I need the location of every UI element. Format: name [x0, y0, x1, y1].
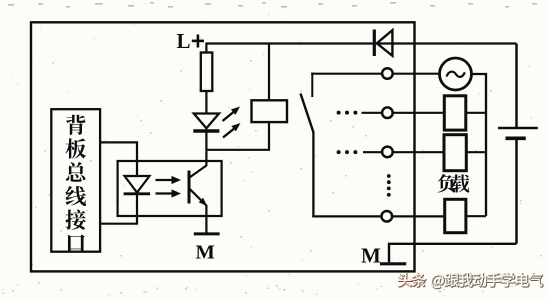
terminal contact 4	[382, 211, 393, 222]
load resistor RL2	[444, 135, 486, 171]
wire: interface to opto LED anode	[101, 142, 137, 176]
indicator LED D2	[193, 114, 219, 151]
ellipsis dots row3	[337, 150, 358, 154]
vertical ellipsis dots	[387, 174, 391, 197]
ground bar M (external)	[380, 262, 406, 265]
terminal contact 1	[382, 68, 393, 79]
wire: opto LED cathode back to interface	[101, 194, 137, 224]
wire: AC source to load common	[472, 74, 487, 216]
wire: emitter to M ground	[205, 205, 207, 234]
wire row4	[312, 215, 444, 217]
phototransistor Q1	[189, 166, 207, 207]
ground bar M (emitter)	[194, 232, 220, 235]
light arrows to phototransistor	[156, 176, 182, 198]
terminal contact 3	[382, 147, 393, 158]
wire: battery negative to M ground	[389, 244, 517, 262]
opto LED D1	[124, 176, 151, 194]
label 负载 (load)	[438, 174, 470, 192]
wire row3	[363, 151, 444, 153]
load resistor RL3	[445, 199, 486, 232]
svg-text:M: M	[196, 242, 215, 264]
wire: node to relay coil	[206, 123, 269, 150]
module boundary frame	[31, 22, 415, 271]
ellipsis dots row2	[337, 111, 358, 115]
wire: collector to node	[205, 151, 207, 166]
relay contact switch S1	[301, 73, 314, 218]
wire: L+ rail	[206, 42, 517, 44]
battery BT1	[498, 44, 538, 244]
wire row1: switch to terminal 1 and AC source	[311, 73, 439, 75]
label L+	[177, 29, 205, 53]
svg-text:M: M	[361, 243, 381, 267]
diode D3	[374, 30, 392, 57]
watermark 头条@跟我动手学电气	[398, 273, 543, 289]
wire row2	[362, 112, 445, 114]
terminal contact 2	[382, 107, 393, 118]
load resistor RL1	[444, 96, 486, 130]
optocoupler U2 box	[118, 161, 222, 216]
backplane bus interface box U1	[51, 109, 100, 252]
resistor R1	[201, 44, 213, 114]
relay coil K1	[252, 44, 288, 123]
LED emission arrows	[223, 107, 241, 138]
svg-text:L: L	[177, 29, 191, 53]
AC source G1	[440, 58, 472, 90]
